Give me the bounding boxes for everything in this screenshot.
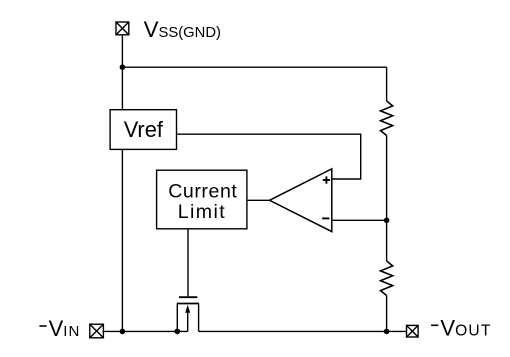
svg-text:VIN: VIN [49,316,81,341]
svg-text:VOUT: VOUT [440,315,491,340]
svg-text:Current: Current [168,181,237,203]
svg-text:Vref: Vref [124,117,164,142]
svg-text:Limit: Limit [178,201,226,223]
svg-text:VSS(GND): VSS(GND) [144,17,221,42]
